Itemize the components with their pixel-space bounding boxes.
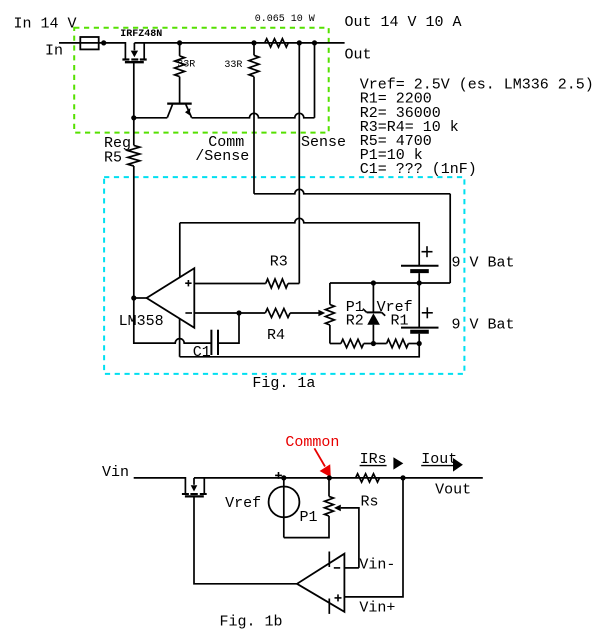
wire inv stub [344,567,359,569]
node rail-senseB [312,40,317,45]
wire output rail fig1b [194,477,483,479]
wire V+ to battery [180,218,419,265]
resistor R3 [266,279,288,288]
resistor Rs [356,474,380,482]
wire opamp out to gate [194,496,297,583]
wire vref bottom to pot bottom [284,516,329,538]
svg-text:Vin+: Vin+ [359,600,395,617]
cyan dashed enclosure box (control block) [104,177,464,374]
wire R2-zener [364,343,387,345]
battery B2 9V [418,283,420,328]
wire top rail [134,42,344,44]
node battery junction [417,280,422,285]
mosfet Q1 IRFZ48N [143,43,145,59]
node inv-C1 [236,310,241,315]
zener diode Vref [372,283,374,312]
wire R4 to pot wiper [290,312,319,314]
wire comm-sense to battery rail [254,189,450,193]
voltage source Vref circle [269,487,300,518]
node vref top [281,475,286,480]
svg-text:Fig. 1a: Fig. 1a [252,375,315,392]
wiper arrow fig1b [334,505,341,512]
svg-text:R5: R5 [104,150,122,167]
node rail-33R1 [177,40,182,45]
svg-text:R2: R2 [346,313,364,330]
svg-text:/Sense: /Sense [195,148,249,165]
svg-text:C1: C1 [193,344,211,361]
svg-text:Fig. 1b: Fig. 1b [220,614,283,631]
svg-text:33R: 33R [177,60,195,71]
svg-text:33R: 33R [224,60,242,71]
node rail-33R2 [251,40,256,45]
wire C1 to inv input [218,313,239,343]
resistor R5 [128,145,140,166]
wire noninv input [194,283,265,285]
op-amp U1 LM358 [147,268,195,328]
svg-text:Out 14 V 10 A: Out 14 V 10 A [345,14,462,31]
svg-text:R4: R4 [267,327,285,344]
svg-text:LM358: LM358 [119,313,164,330]
wire opamp V- pin [179,319,181,357]
wire battery top right vertical [449,194,451,283]
resistor R4 [265,309,290,318]
arrow IRs [393,457,403,469]
resistor 33R second [253,43,255,55]
node gate-R5-comm [131,115,136,120]
svg-text:0.065 10 W: 0.065 10 W [255,14,315,25]
wire bottom row left [330,343,341,345]
wire sense vertical A [298,43,300,284]
potentiometer P1 fig1b [325,496,334,516]
capacitor C1 [210,330,212,355]
battery B1 9V [401,265,439,267]
wire C1 branch [134,298,212,343]
arrow Iout [453,458,463,472]
wire vout to noninv [344,478,403,597]
svg-text:9 V Bat: 9 V Bat [452,317,515,334]
wire sense vertical B [314,43,316,118]
wire wiper to inv [341,508,359,568]
mosfet Q3 [203,478,205,493]
battery B2 9V plus sign [422,312,433,314]
resistor shunt 0.065 [265,39,289,47]
green dashed enclosure box (pass device block) [74,28,329,133]
wire battery mid rail [330,282,450,284]
plus sign at vref [275,474,282,476]
wire comm right segment with hops [192,113,315,118]
red arrow to common node [314,448,325,466]
resistor R1 [387,339,409,347]
op-amp U2 [297,554,344,612]
svg-text:Common: Common [285,434,339,451]
node zener top [371,280,376,285]
wire bottom rail [180,344,420,357]
wire comm left segment [134,117,168,119]
potentiometer P1 [329,283,331,305]
svg-text:Out: Out [345,47,372,64]
transistor Q2 [167,102,192,104]
fuse F1 [80,37,98,49]
node row right [417,341,422,346]
svg-text:In 14 V: In 14 V [14,16,77,33]
svg-text:In: In [45,43,63,60]
wire opamp V+ pin [179,223,181,278]
svg-text:9 V Bat: 9 V Bat [452,255,515,272]
svg-text:IRFZ48N: IRFZ48N [120,29,162,40]
svg-text:P1: P1 [300,509,318,526]
wire fuse to mosfet [104,43,126,59]
svg-text:R3: R3 [270,254,288,271]
wire R5 to opamp output [133,166,135,298]
svg-text:C1= ??? (1nF): C1= ??? (1nF) [360,161,477,178]
svg-text:Vref: Vref [225,495,261,512]
wire 33R2 down to comm-sense rail [253,77,255,194]
wire R3 to vertical A [288,283,299,285]
battery B1 9V plus sign [422,251,433,253]
node row zener [371,341,376,346]
node input junction [101,40,106,45]
wire gate down [133,62,135,145]
svg-text:Vin: Vin [102,464,129,481]
wire inv input [194,312,265,314]
wire through vref source [283,478,285,538]
wire R1 right [408,343,419,345]
svg-text:Sense: Sense [301,134,346,151]
wire input [59,42,104,44]
node rail-senseA [297,40,302,45]
svg-text:Vout: Vout [435,482,471,499]
wire Vin [134,478,186,493]
wiper arrow P1 [318,310,325,317]
resistor R2 [341,339,364,347]
node opamp output [131,295,136,300]
node common [327,475,332,480]
svg-text:Vin-: Vin- [359,557,395,574]
node vout branch [400,475,405,480]
wire opamp output [134,297,147,299]
resistor 33R first [179,43,181,56]
svg-text:Rs: Rs [361,494,379,511]
